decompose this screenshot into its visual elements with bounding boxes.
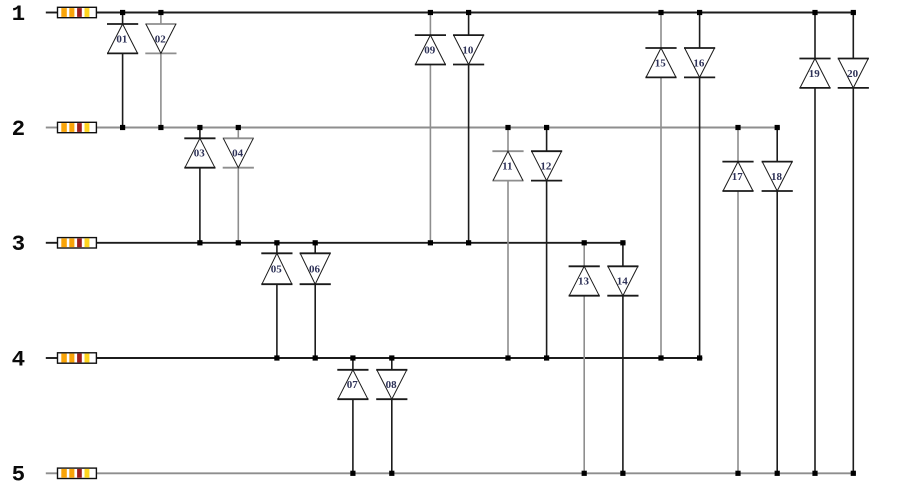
- svg-text:09: 09: [424, 44, 436, 56]
- svg-text:2: 2: [12, 116, 26, 142]
- svg-text:4: 4: [12, 346, 26, 372]
- svg-text:05: 05: [271, 263, 283, 275]
- svg-text:20: 20: [847, 68, 859, 80]
- svg-text:3: 3: [12, 231, 26, 257]
- svg-text:12: 12: [540, 161, 552, 173]
- svg-text:03: 03: [194, 148, 206, 160]
- svg-text:10: 10: [462, 44, 474, 56]
- svg-text:15: 15: [655, 57, 667, 69]
- svg-text:1: 1: [12, 1, 26, 27]
- svg-text:5: 5: [12, 462, 26, 488]
- svg-text:17: 17: [732, 171, 744, 183]
- svg-text:16: 16: [693, 57, 705, 69]
- svg-text:02: 02: [155, 33, 167, 45]
- svg-text:11: 11: [502, 161, 512, 173]
- svg-text:04: 04: [232, 148, 244, 160]
- svg-text:13: 13: [578, 276, 590, 288]
- svg-text:19: 19: [809, 68, 821, 80]
- svg-text:06: 06: [309, 263, 321, 275]
- svg-text:14: 14: [617, 276, 629, 288]
- svg-text:18: 18: [771, 171, 783, 183]
- svg-text:07: 07: [347, 379, 359, 391]
- svg-text:08: 08: [386, 379, 398, 391]
- svg-text:01: 01: [116, 33, 127, 45]
